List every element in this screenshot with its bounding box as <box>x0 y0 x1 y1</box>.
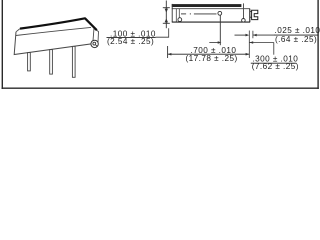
side view: height dimension line <box>165 1 167 29</box>
trimmer 3D view: end face sliver <box>93 28 99 44</box>
frame left border <box>1 0 3 89</box>
side view: height dim bottom tick <box>163 22 170 24</box>
svg-text:(17.78 ± .25): (17.78 ± .25) <box>186 54 238 63</box>
trimmer 3D view: pin 1 <box>28 53 31 71</box>
side view: body left edge <box>171 4 173 22</box>
trimmer 3D view: front face <box>14 29 95 54</box>
trimmer 3D view: cover seam line <box>16 27 91 35</box>
dim .025 arrows and extension lines <box>235 34 247 36</box>
side view: screw neck <box>250 10 252 12</box>
side view: pin circle center <box>218 11 222 15</box>
dim .100 leader <box>156 28 169 37</box>
side view: body right edge <box>249 9 251 22</box>
dim .700 left extension line <box>167 46 169 58</box>
side view: screw head with slot <box>252 10 258 19</box>
dim .700 dimension line with arrows <box>168 53 250 55</box>
side view: height dim arrowheads <box>165 9 168 13</box>
side view: body top line <box>172 8 250 10</box>
dim .300 left arrow <box>209 42 218 44</box>
side view: internal wall lines left <box>175 9 177 22</box>
svg-text:(.64 ± .25): (.64 ± .25) <box>275 35 317 44</box>
svg-text:(2.54 ± .25): (2.54 ± .25) <box>107 37 154 46</box>
trimmer 3D view: top face <box>16 18 97 32</box>
frame right border <box>317 0 319 89</box>
side view: body heavy top bar <box>172 4 242 7</box>
trimmer 3D view: pin 3 <box>72 46 75 77</box>
trimmer 3D view: left beak edge <box>16 29 20 32</box>
side view: centerline dash-dot <box>181 13 186 15</box>
side view: body bottom edge <box>172 21 250 23</box>
dim .300 right arrow and leader elbow <box>249 42 273 44</box>
side view: internal wall line right <box>243 3 245 22</box>
svg-text:(7.62 ± .25): (7.62 ± .25) <box>252 62 299 71</box>
side view: center pin leader line <box>219 15 221 45</box>
side view: pin circle left <box>178 18 182 22</box>
side view: height dim top tick <box>163 7 170 9</box>
frame bottom border <box>2 87 319 89</box>
side view: pin circle right <box>242 19 246 23</box>
trimmer 3D view: adjustment screw <box>91 40 98 47</box>
trimmer 3D view: pin 2 <box>50 50 53 75</box>
trimmer 3D view: heavy top edge <box>20 18 97 30</box>
